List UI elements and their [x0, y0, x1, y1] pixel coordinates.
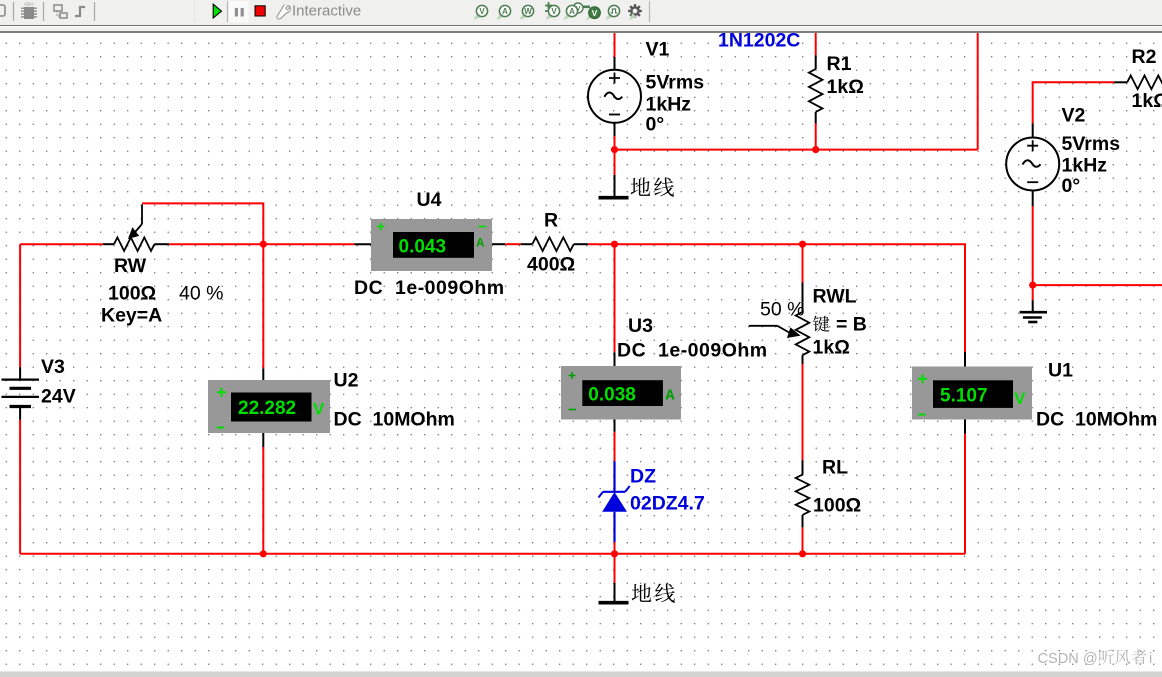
svg-text:V: V — [313, 400, 325, 419]
svg-text:100Ω: 100Ω — [813, 495, 861, 517]
junction node RWL top — [799, 241, 806, 248]
svg-text:100Ω: 100Ω — [108, 283, 156, 305]
wire RW right to junction — [169, 243, 354, 245]
wire V2 bottom — [1032, 206, 1034, 285]
svg-text:0.043: 0.043 — [399, 237, 447, 258]
wire left rail bottom — [19, 420, 21, 554]
svg-text:V: V — [551, 7, 557, 16]
svg-text:0°: 0° — [1062, 175, 1081, 197]
resistor RL — [796, 460, 810, 527]
toolbar separator 4 — [227, 1, 229, 22]
svg-text:CSDN @: CSDN @ — [1038, 651, 1098, 667]
wire U2 bottom — [262, 447, 264, 554]
toolbar separator right — [649, 1, 651, 22]
svg-text:5.107: 5.107 — [940, 386, 988, 407]
wire net V1 top vertical — [614, 33, 616, 57]
probe vref icon — [545, 2, 560, 20]
wire left rail top segment — [20, 243, 103, 245]
wire DZ bottom — [614, 542, 616, 554]
svg-text:02DZ4.7: 02DZ4.7 — [630, 493, 705, 515]
power source V2 — [1006, 123, 1059, 206]
toolbar hierarchy icon — [54, 5, 67, 18]
svg-text:DZ: DZ — [630, 466, 656, 488]
wire U4 to R — [505, 243, 521, 245]
junction DZ bottom — [611, 550, 618, 557]
svg-text:V: V — [592, 8, 598, 18]
svg-text:5Vrms: 5Vrms — [646, 72, 705, 94]
svg-text:V3: V3 — [41, 356, 65, 378]
wire node to RWL — [615, 243, 803, 245]
toolbar chip icon — [21, 2, 37, 20]
wire ground branch bottom — [614, 554, 616, 583]
junction RW-U2 — [260, 241, 267, 248]
probe AV icon — [564, 3, 584, 20]
potentiometer RW — [103, 205, 169, 252]
svg-text:400Ω: 400Ω — [527, 254, 575, 276]
junction node V1-R1 — [611, 146, 618, 153]
toolbar gear icon — [628, 4, 642, 20]
ground GND3 (earth) — [1020, 300, 1047, 322]
toolbar pause button — [229, 1, 249, 22]
wire U2 top — [262, 244, 264, 368]
svg-text:V2: V2 — [1062, 105, 1086, 127]
wire horizontal net1 — [615, 149, 978, 151]
wire V2 net right — [1033, 284, 1162, 286]
zener diode DZ — [599, 461, 630, 542]
svg-text:DC 1e-009Ohm: DC 1e-009Ohm — [354, 277, 505, 299]
toolbar separator 1 — [13, 2, 15, 21]
svg-text:1kΩ: 1kΩ — [813, 337, 850, 359]
svg-text:U3: U3 — [628, 315, 653, 337]
svg-text:5Vrms: 5Vrms — [1062, 133, 1121, 155]
svg-text:40 %: 40 % — [179, 283, 223, 305]
svg-text:RW: RW — [114, 255, 147, 277]
wire V1 ground branch — [614, 150, 616, 175]
svg-text:U2: U2 — [334, 370, 359, 392]
svg-text:V1: V1 — [646, 39, 670, 61]
svg-text:Interactive: Interactive — [292, 3, 361, 20]
junction node U3 top — [611, 241, 618, 248]
toolbar separator 3 — [94, 2, 96, 21]
probe current icon — [497, 5, 511, 20]
svg-text:V: V — [479, 7, 485, 16]
toolbar partial icon — [0, 5, 5, 16]
multimeter U3 — [561, 352, 681, 432]
svg-text:R2: R2 — [1132, 46, 1157, 68]
svg-text:i: i — [1149, 651, 1152, 667]
toolbar — [0, 0, 1162, 26]
wire RL bottom — [802, 527, 804, 553]
svg-text:ADU: ADU — [24, 2, 34, 7]
wire RWL node to U1 branch — [803, 244, 966, 352]
svg-text:1kΩ: 1kΩ — [1132, 90, 1162, 112]
wire U3 to DZ — [614, 432, 616, 461]
junction R1 bottom — [812, 146, 819, 153]
svg-text:V: V — [1014, 389, 1026, 408]
wire R to node — [588, 243, 615, 245]
junction RL bottom — [799, 550, 806, 557]
multimeter U2 — [208, 368, 330, 447]
svg-text:U4: U4 — [417, 189, 442, 211]
wire V2 top net — [1033, 82, 1115, 123]
svg-text:22.282: 22.282 — [238, 398, 296, 419]
toolbar step icon — [75, 7, 85, 16]
svg-text:W: W — [524, 7, 532, 16]
svg-text:1kHz: 1kHz — [1062, 155, 1108, 177]
toolbar wrench icon — [277, 3, 290, 19]
multimeter U4 — [354, 219, 505, 271]
wire RWL to RL — [802, 364, 804, 460]
multimeter U1 — [912, 352, 1032, 434]
toolbar separator 2 — [43, 2, 45, 21]
toolbar stop button — [255, 6, 265, 16]
probe minusV icon — [583, 7, 600, 21]
svg-text:= B: = B — [836, 314, 867, 336]
ground GND1 (di xian) — [599, 175, 629, 198]
junction U2 bottom — [260, 550, 267, 557]
probe power icon — [520, 5, 534, 20]
svg-text:U1: U1 — [1048, 360, 1073, 382]
ground GND2 (di xian) — [599, 583, 629, 603]
svg-text:24V: 24V — [41, 386, 76, 408]
svg-text:RL: RL — [822, 457, 848, 479]
svg-text:DC 10MOhm: DC 10MOhm — [1036, 409, 1157, 431]
value RWL key B — [813, 316, 829, 332]
wire RW wiper net — [142, 203, 263, 244]
power source V1 — [588, 57, 641, 136]
svg-text:R1: R1 — [827, 53, 852, 75]
wire U3 branch top — [614, 244, 616, 352]
svg-text:A: A — [477, 237, 485, 251]
svg-text:1kΩ: 1kΩ — [827, 76, 864, 98]
svg-text:1kHz: 1kHz — [646, 94, 692, 116]
svg-text:0°: 0° — [646, 114, 665, 136]
wire U1 bottom — [964, 434, 966, 554]
svg-text:50 %: 50 % — [760, 299, 804, 321]
svg-text:0.038: 0.038 — [588, 385, 636, 406]
label ground2 地线 — [632, 583, 652, 601]
probe voltage icon — [474, 5, 488, 20]
svg-text:R: R — [544, 210, 558, 232]
svg-text:DC 1e-009Ohm: DC 1e-009Ohm — [617, 340, 768, 362]
battery V3 — [2, 367, 40, 420]
wire left rail — [19, 244, 21, 367]
probe digital icon — [606, 5, 620, 20]
wire V1 bottom — [614, 136, 616, 150]
toolbar panel edge — [194, 0, 196, 22]
resistor R2 — [1114, 76, 1162, 90]
bottom scrollbar — [0, 671, 1162, 677]
resistor R — [521, 237, 588, 251]
wire bottom rail — [20, 553, 965, 555]
svg-text:Key=A: Key=A — [101, 305, 162, 327]
potentiometer RWL — [749, 283, 810, 365]
svg-text:DC 10MOhm: DC 10MOhm — [334, 409, 455, 431]
svg-text:A: A — [502, 7, 508, 16]
wire vertical right of net1 — [977, 33, 979, 150]
svg-text:A: A — [569, 7, 575, 16]
wire RWL top — [802, 244, 804, 282]
junction V2 ground — [1029, 282, 1036, 289]
svg-text:A: A — [666, 388, 675, 405]
toolbar play button — [213, 4, 221, 18]
resistor R1 — [809, 33, 823, 150]
wire to earth ground — [1032, 285, 1034, 300]
label ground 地线 — [631, 177, 651, 195]
svg-text:RWL: RWL — [813, 286, 857, 308]
